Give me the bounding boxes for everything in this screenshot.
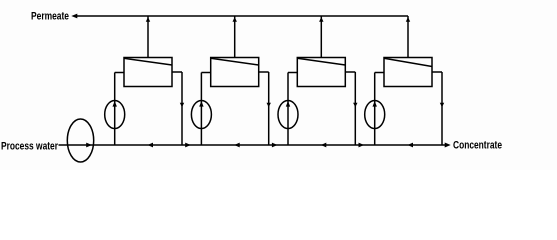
arrow: flow down stage 3 [353,103,357,108]
arrow: forward flow stage 2 to 3 [272,143,278,148]
arrow: feed flow right [86,143,92,148]
pump P3 [278,101,298,129]
wire: permeate riser stage 3 [320,16,322,58]
arrow: concentrate outlet (points right) [445,143,451,148]
wire: concentrate downcomer stage 3 [354,72,356,145]
wire: permeate riser stage 2 [234,16,236,58]
pump P2 [191,101,211,129]
wire: module feed stub stage 4 [375,72,384,74]
membrane module M3 [297,58,345,87]
wire: permeate header line [77,15,408,17]
membrane module M4 [384,58,432,87]
wire: concentrate downcomer stage 2 [268,72,270,145]
arrow: pump flow up stage 4 [373,101,377,107]
membrane module M2 [211,58,259,87]
arrow: flow down stage 4 [440,103,444,108]
wire: permeate riser stage 1 [147,16,149,58]
wire: module outlet stub stage 2 [259,71,269,73]
arrow: recirculation left stage 1 [148,143,154,148]
arrow: flow down stage 1 [180,103,184,108]
arrow: forward flow stage 1 to 2 [185,143,191,148]
wire: pump riser stage 4 [374,73,376,146]
wire: concentrate downcomer stage 4 [441,72,443,145]
arrow: permeate outlet (points left) [71,14,77,19]
wire: module outlet stub stage 3 [345,71,355,73]
arrow: pump flow up stage 2 [199,101,203,107]
arrow: recirculation left stage 3 [321,143,327,148]
arrow: recirculation left stage 2 [234,143,240,148]
arrow: permeate up stage 1 [146,17,150,22]
wire: permeate riser stage 4 [407,16,409,58]
membrane module M1 [124,58,172,87]
arrow: pump flow up stage 3 [286,101,290,107]
arrow: forward flow stage 3 to 4 [359,143,365,148]
arrow: flow down stage 2 [267,103,271,108]
arrow: pump flow up stage 1 [113,101,117,107]
arrow: recirculation left stage 4 [408,143,414,148]
wire: pump riser stage 1 [114,73,116,146]
wire: module outlet stub stage 1 [172,71,182,73]
wire: concentrate downcomer stage 1 [181,72,183,145]
wire: module feed stub stage 3 [288,72,297,74]
pump P4 [365,101,385,129]
wire: pump riser stage 3 [287,73,289,146]
svg-text:Permeate: Permeate [31,10,69,22]
wire: feed / concentrate manifold line [59,144,446,146]
svg-text:Concentrate: Concentrate [453,139,502,151]
svg-text:Process water: Process water [1,140,59,152]
arrow: permeate up stage 2 [233,17,237,22]
pump P0 (feed pump) [67,119,93,162]
pump P1 [105,101,125,129]
arrow: permeate up stage 3 [319,17,323,22]
wire: pump riser stage 2 [200,73,202,146]
wire: module feed stub stage 1 [115,72,124,74]
wire: module feed stub stage 2 [201,72,210,74]
arrow: permeate up stage 4 [406,17,410,22]
wire: module outlet stub stage 4 [432,71,442,73]
